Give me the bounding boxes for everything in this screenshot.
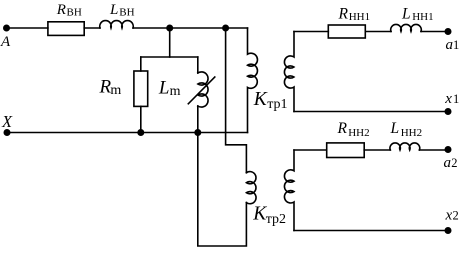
terminal X: [4, 129, 11, 136]
svg-text:RНН2: RНН2: [337, 120, 370, 139]
wire bus to L_m: [197, 57, 199, 73]
inductor L_m (nonlinear): [198, 72, 208, 107]
wire node1 down to magnetizing bus: [169, 28, 171, 57]
svg-text:a1: a1: [446, 37, 460, 53]
wire secondary2 bottom: [294, 230, 448, 232]
svg-text:X: X: [1, 112, 13, 131]
arrow of nonlinear L_m: [188, 77, 215, 104]
wire K_tp2 primary return to X rail: [198, 133, 247, 247]
svg-text:LНН1: LНН1: [401, 6, 434, 24]
resistor R_m: [134, 71, 148, 106]
svg-text:A: A: [0, 34, 11, 50]
X rail wire: [7, 132, 248, 134]
inductor L_BH: [100, 21, 133, 28]
wire R_BH to L_BH: [84, 27, 100, 29]
wire R_HH2 to L_HH2: [364, 149, 390, 151]
junction dot L_m / X rail: [194, 129, 201, 136]
wire secondary1 bottom: [294, 111, 448, 113]
resistor R_HH1: [328, 25, 365, 38]
wire L_HH1 to a1: [421, 31, 448, 33]
transformer K_tp1 primary coil: [248, 28, 258, 133]
wire R_HH1 to L_HH1: [365, 31, 391, 33]
transformer K_tp1 secondary coil: [284, 32, 294, 112]
svg-text:x1: x1: [444, 91, 459, 107]
svg-text:LВН: LВН: [109, 2, 135, 18]
wire secondary1 top: [294, 31, 328, 33]
svg-text:Rm: Rm: [99, 77, 122, 98]
wire node 2 down to K_tp2: [226, 28, 247, 173]
wire A to R_BH: [7, 27, 48, 29]
terminal a2: [445, 146, 452, 153]
svg-text:Kтр1: Kтр1: [253, 89, 288, 112]
node 2 junction dot: [222, 25, 229, 32]
inductor L_HH2: [390, 143, 420, 150]
svg-text:RВН: RВН: [56, 2, 82, 18]
node 1 junction dot: [166, 25, 173, 32]
transformer K_tp2 primary coil: [246, 172, 256, 204]
wire bus to R_m: [140, 57, 142, 71]
resistor R_HH2: [327, 143, 365, 158]
junction dot R_m / X rail: [137, 129, 144, 136]
terminal A: [3, 25, 10, 32]
terminal x1: [445, 108, 452, 115]
magnetizing bus: [141, 56, 198, 58]
transformer K_tp2 secondary coil: [284, 150, 294, 231]
svg-text:RНН1: RНН1: [338, 6, 371, 24]
inductor L_HH1: [391, 24, 422, 31]
svg-text:LНН2: LНН2: [390, 120, 423, 139]
svg-text:Kтр2: Kтр2: [252, 203, 286, 226]
svg-text:x2: x2: [445, 208, 459, 224]
terminal a1: [445, 28, 452, 35]
resistor R_BH: [48, 22, 84, 36]
svg-text:a2: a2: [444, 155, 458, 171]
svg-text:Lm: Lm: [158, 78, 181, 100]
terminal x2: [445, 227, 452, 234]
wire L_HH2 to a2: [419, 149, 448, 151]
wire L_m to X rail: [197, 106, 199, 133]
wire secondary2 top: [294, 149, 327, 151]
wire L_BH to K_tp1 (top rail): [133, 27, 248, 29]
wire R_m to X rail: [140, 106, 142, 132]
